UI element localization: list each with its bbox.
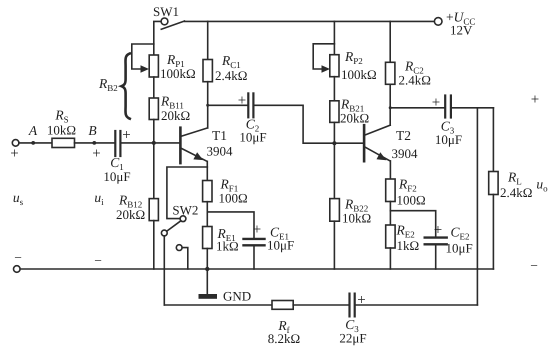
wire RF1 to RE1 [206, 202, 208, 227]
transistor T1 [180, 128, 207, 163]
svg-text:T1: T1 [212, 128, 227, 143]
capacitor C2 [208, 104, 248, 106]
wire feedback riser [476, 108, 478, 305]
capacitor CE2 [425, 238, 447, 245]
svg-text:T2: T2 [396, 128, 411, 143]
label RB11 20k [160, 94, 190, 124]
capacitor CE1 [244, 239, 265, 245]
wire stub to CE1 [207, 212, 254, 238]
svg-text:12V: 12V [450, 23, 473, 38]
wire C1 to T1 base [121, 142, 179, 144]
wire RC1 to collector [207, 82, 209, 128]
wire RB11 to base node [153, 120, 155, 143]
svg-text:+: + [92, 146, 100, 162]
resistor RC2 [389, 21, 391, 62]
wire RL to rail [492, 195, 494, 270]
svg-text:−: − [530, 258, 538, 273]
svg-text:10μF: 10μF [446, 241, 473, 256]
wire input to RS [19, 142, 52, 144]
resistor RF1 [203, 181, 212, 202]
wire RF2 to RE2 [389, 202, 391, 226]
svg-text:100kΩ: 100kΩ [341, 67, 377, 82]
label us ui [13, 190, 104, 268]
wire Rf to C3fb [293, 304, 348, 306]
wire RB22 to rail [333, 221, 335, 269]
svg-text:20kΩ: 20kΩ [161, 108, 190, 123]
svg-text:1kΩ: 1kΩ [216, 239, 239, 254]
brace RB2 [122, 54, 130, 119]
label RS 10k [47, 108, 76, 138]
svg-text:1kΩ: 1kΩ [397, 238, 420, 253]
resistor RL [492, 108, 494, 172]
wire T2 emitter to RF2 [389, 161, 391, 179]
svg-text:A: A [28, 123, 38, 138]
wire RB12 to rail [153, 221, 155, 269]
svg-text:100Ω: 100Ω [397, 193, 426, 208]
svg-text:2.4kΩ: 2.4kΩ [215, 68, 247, 83]
switch SW2 [161, 216, 187, 305]
node T2 base junction [332, 141, 336, 145]
label +Ucc 12V [446, 10, 475, 38]
wire RE2 to rail [389, 248, 391, 269]
svg-text:+: + [253, 222, 261, 238]
wire C3fb to riser [356, 304, 478, 306]
svg-text:SW1: SW1 [153, 4, 179, 19]
svg-text:+: + [434, 223, 442, 239]
node A [31, 141, 35, 145]
wire stub to CE2 [390, 211, 435, 237]
svg-text:+: + [10, 146, 18, 162]
wire RB21 to base node [333, 122, 335, 143]
svg-text:20kΩ: 20kΩ [116, 207, 145, 222]
potentiometer RP2 [333, 21, 335, 54]
svg-text:−: − [14, 250, 22, 265]
node B [92, 141, 96, 145]
resistor RB12 [153, 143, 155, 199]
svg-text:2.4kΩ: 2.4kΩ [500, 185, 532, 200]
terminal input + [12, 140, 19, 147]
wire bottom rail [20, 268, 493, 270]
svg-text:+: + [531, 92, 539, 108]
wire RS to C1 [75, 142, 115, 144]
svg-text:+: + [432, 95, 440, 111]
transistor T2 [364, 125, 390, 161]
wire RC2 to T2 collector [389, 84, 391, 125]
svg-text:10μF: 10μF [267, 238, 294, 253]
wire base node to RB22 [333, 143, 335, 198]
svg-text:B: B [88, 123, 96, 138]
svg-text:10kΩ: 10kΩ [342, 211, 371, 226]
resistor RB22 [330, 199, 340, 222]
svg-text:100kΩ: 100kΩ [160, 66, 196, 81]
svg-text:+: + [357, 293, 365, 309]
wire CE1 to rail [253, 246, 255, 270]
resistor RB11 [149, 98, 158, 120]
resistor RF2 [386, 179, 395, 202]
wire top VCC rail [185, 20, 435, 22]
wire RE1 to rail [206, 249, 208, 270]
node base junction [152, 141, 156, 145]
wire CE2 to rail [435, 245, 437, 270]
svg-text:+: + [122, 128, 130, 144]
svg-text:10μF: 10μF [239, 130, 266, 145]
svg-text:10kΩ: 10kΩ [47, 123, 76, 138]
resistor RC1 [207, 21, 209, 59]
capacitor C3 output [390, 107, 444, 109]
ground GND [206, 269, 208, 294]
resistor Rf [272, 301, 293, 310]
wire T1 emitter to RF1 [206, 161, 208, 180]
wire RP1 to RB11 [153, 77, 155, 98]
wire feedback row [164, 304, 272, 306]
resistor RS [52, 138, 75, 147]
switch SW1 [154, 18, 185, 55]
svg-text:−: − [94, 253, 102, 268]
label output port [530, 92, 548, 273]
resistor RE2 [386, 225, 395, 248]
svg-text:3904: 3904 [207, 144, 234, 159]
svg-text:2.4kΩ: 2.4kΩ [399, 73, 431, 88]
svg-text:10μF: 10μF [103, 169, 130, 184]
terminal input - and ground rail [13, 266, 20, 273]
svg-text:20kΩ: 20kΩ [340, 111, 369, 126]
resistor RB21 [330, 101, 339, 123]
svg-text:3904: 3904 [392, 146, 419, 161]
terminal +Ucc [434, 18, 442, 26]
wire emitter to SW2 [167, 167, 207, 219]
svg-text:GND: GND [223, 289, 251, 304]
resistor RE1 [203, 227, 212, 249]
capacitor C1 [115, 131, 120, 156]
node ground junction [205, 267, 209, 271]
svg-text:10μF: 10μF [435, 132, 462, 147]
capacitor C3 feedback [350, 294, 355, 317]
wire C3 to RL [452, 107, 493, 109]
wire RP2 to RB21 [333, 77, 335, 101]
label RP1 100k [160, 52, 196, 81]
svg-text:100Ω: 100Ω [219, 191, 248, 206]
svg-text:8.2kΩ: 8.2kΩ [268, 331, 300, 346]
wire C2 to T2 base [255, 105, 364, 143]
potentiometer RP1 [132, 44, 159, 77]
svg-text:SW2: SW2 [172, 203, 198, 218]
svg-text:22μF: 22μF [339, 331, 366, 346]
svg-text:+: + [238, 93, 246, 109]
